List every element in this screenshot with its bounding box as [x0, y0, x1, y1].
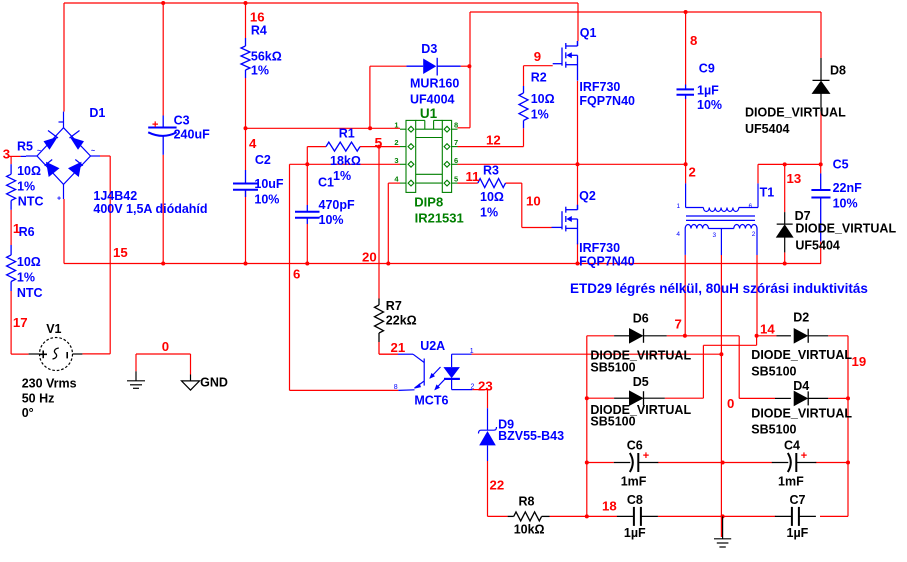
svg-text:+: + — [57, 196, 61, 203]
svg-text:D1: D1 — [89, 106, 105, 120]
wire C3 top — [162, 3, 164, 116]
wire to D9 cathode — [487, 390, 489, 409]
svg-text:3: 3 — [713, 232, 717, 239]
svg-text:4: 4 — [676, 231, 680, 238]
svg-text:1µF: 1µF — [787, 526, 809, 540]
junction rail C3 — [161, 262, 165, 266]
R5 top lead — [10, 164, 12, 174]
wire to D3 anode — [370, 65, 407, 67]
svg-text:23: 23 — [478, 379, 493, 394]
svg-text:2: 2 — [752, 231, 756, 238]
svg-text:1µF: 1µF — [624, 526, 646, 540]
junction rail pin4 — [386, 262, 390, 266]
wire C2 bottom — [245, 190, 247, 264]
wire opto pin1 to node 0 — [472, 353, 722, 355]
junction rail C2 — [244, 262, 248, 266]
svg-text:12: 12 — [486, 133, 501, 148]
R2 body — [519, 93, 528, 121]
svg-text:1%: 1% — [480, 206, 498, 220]
svg-text:FQP7N40: FQP7N40 — [579, 255, 635, 269]
svg-text:21: 21 — [391, 340, 406, 355]
svg-text:Q1: Q1 — [580, 26, 597, 40]
svg-text:R4: R4 — [251, 24, 267, 38]
junction node 13 D7 — [783, 162, 787, 166]
svg-text:19: 19 — [852, 354, 867, 369]
wire Q1 source down — [577, 81, 579, 164]
wire to C6 — [587, 462, 614, 464]
wire node 18 to C8 — [587, 515, 617, 517]
junction node 8 C9 — [684, 10, 688, 14]
wire opto pin2 — [472, 389, 487, 391]
svg-text:10%: 10% — [254, 193, 279, 207]
svg-text:MUR160: MUR160 — [410, 77, 459, 91]
junction node 2 half bridge — [576, 162, 580, 166]
junction node 19 D4 — [846, 396, 850, 400]
svg-text:SB5100: SB5100 — [751, 365, 796, 379]
diode D3 MUR160 — [406, 65, 423, 67]
junction node 7 — [683, 334, 687, 338]
op-amp driver U1 IR21531 DIP8 — [400, 120, 458, 192]
R1 body — [326, 142, 360, 151]
svg-text:10uF: 10uF — [254, 177, 284, 191]
svg-text:C5: C5 — [833, 158, 849, 172]
wire to C7 — [723, 515, 776, 517]
wire node 14 horizontal — [703, 344, 756, 346]
svg-text:V1: V1 — [46, 322, 61, 336]
svg-text:+: + — [643, 450, 649, 462]
wire rail node 8 — [470, 11, 821, 13]
wire C9 top — [685, 12, 687, 85]
wire node 5 to R7 — [378, 264, 380, 299]
wire node 4 to C2 — [245, 128, 247, 170]
svg-text:470pF: 470pF — [319, 198, 355, 212]
wire R1 right to U1 pin2 — [360, 146, 400, 148]
wire C4 to node 19 — [816, 462, 849, 464]
wire to R8 — [488, 515, 508, 517]
R3 body — [478, 179, 506, 188]
svg-text:FQP7N40: FQP7N40 — [579, 94, 635, 108]
R6 body — [7, 255, 16, 282]
svg-text:DIODE_VIRTUAL: DIODE_VIRTUAL — [751, 348, 852, 362]
diode D7 UF5404 — [784, 212, 786, 224]
AC source V1 — [29, 338, 83, 371]
svg-text:20: 20 — [362, 250, 377, 265]
svg-text:1%: 1% — [531, 108, 549, 122]
svg-text:R6: R6 — [19, 225, 35, 239]
svg-text:NTC: NTC — [17, 286, 43, 300]
capacitor C8 — [617, 507, 658, 526]
svg-text:D3: D3 — [421, 42, 437, 56]
wire pin4 to rail — [387, 183, 389, 263]
junction node 4 — [244, 126, 248, 130]
junction node 19 C4 — [846, 461, 850, 465]
svg-text:7: 7 — [454, 138, 458, 147]
wire R1 left down — [306, 147, 308, 165]
bridge rectifier D1 — [21, 112, 100, 199]
svg-text:240uF: 240uF — [174, 128, 210, 142]
wire node 15 vertical — [109, 156, 111, 354]
wire node 6 to opto emitter — [290, 389, 399, 391]
D1 diode bottom-right edge — [68, 162, 82, 177]
svg-text:C3: C3 — [174, 114, 190, 128]
svg-text:2: 2 — [394, 138, 398, 147]
diode D8 UF5404 — [820, 58, 822, 80]
junction D3 cathode — [467, 64, 471, 68]
svg-text:1: 1 — [677, 203, 681, 210]
wire C8 right — [658, 515, 723, 517]
D5 symbol — [630, 391, 644, 405]
wire D7 anode to rail — [784, 252, 786, 263]
junction rail D7 — [783, 262, 787, 266]
svg-text:3: 3 — [394, 156, 398, 165]
D7 symbol — [777, 224, 793, 237]
wire R2 top — [523, 66, 525, 86]
wire to D2 anode — [757, 335, 777, 337]
R8 right lead — [542, 515, 550, 517]
R4 body — [241, 46, 250, 70]
wire top rail node 16 — [64, 2, 578, 4]
capacitor C3 (polarized) — [148, 128, 176, 136]
svg-text:15: 15 — [113, 245, 128, 260]
svg-text:10Ω: 10Ω — [480, 190, 504, 204]
svg-text:9: 9 — [534, 49, 541, 64]
svg-text:C2: C2 — [255, 153, 271, 167]
capacitor C9 — [677, 89, 695, 94]
wire node 19 column — [847, 336, 849, 517]
wire D3 anode branch — [369, 66, 371, 128]
wire ground net 0 — [136, 353, 191, 355]
svg-text:10kΩ: 10kΩ — [514, 523, 545, 537]
transistor Q2 IRF730 — [552, 205, 578, 245]
R7 body — [375, 305, 384, 333]
svg-text:1mF: 1mF — [621, 475, 647, 489]
capacitor C6 — [614, 453, 659, 472]
R2 bottom lead — [523, 121, 525, 129]
wire D4 cathode — [828, 397, 848, 399]
D4 symbol — [794, 391, 808, 405]
svg-text:NTC: NTC — [18, 195, 44, 209]
svg-text:~: ~ — [37, 148, 41, 155]
svg-text:C8: C8 — [627, 493, 643, 507]
wire D1 bottom to rail — [63, 199, 65, 264]
wire C6 to C4 — [658, 462, 773, 464]
svg-text:1mF: 1mF — [778, 475, 804, 489]
junction node 0 ground — [721, 514, 725, 518]
svg-text:10Ω: 10Ω — [17, 255, 41, 269]
svg-text:8: 8 — [394, 384, 398, 391]
svg-text:R8: R8 — [519, 495, 535, 509]
svg-text:MCT6: MCT6 — [414, 394, 448, 408]
svg-text:SB5100: SB5100 — [751, 423, 796, 437]
svg-text:1J4B42: 1J4B42 — [93, 189, 137, 203]
svg-text:10Ω: 10Ω — [17, 164, 41, 178]
svg-text:1%: 1% — [17, 271, 35, 285]
svg-text:UF5404: UF5404 — [795, 239, 840, 253]
svg-text:Q2: Q2 — [579, 189, 596, 203]
wire ground stem left — [135, 354, 137, 371]
wire U1 pin7 node 12 — [458, 146, 524, 148]
wire node 18 left column — [586, 336, 588, 517]
transistor Q1 IRF730 — [553, 41, 578, 81]
R4 top lead — [245, 38, 247, 46]
svg-text:1µF: 1µF — [697, 83, 719, 97]
wire left vertical to D1 top — [63, 3, 65, 112]
wire node 13 — [758, 163, 821, 165]
wire node 2 to T1 primary left — [685, 164, 687, 183]
wire R4 bottom to node 4 — [245, 78, 247, 128]
R7 bottom lead — [378, 333, 380, 342]
wire C5 bottom to rail — [820, 241, 822, 263]
wire to U1 pin 8 — [458, 127, 471, 129]
svg-text:SB5100: SB5100 — [590, 415, 635, 429]
junction node 18 C6 — [585, 461, 589, 465]
svg-text:1%: 1% — [333, 169, 351, 183]
wire U1 pin6 node 2 — [458, 163, 686, 165]
capacitor C7 — [775, 507, 816, 526]
svg-text:10Ω: 10Ω — [531, 92, 555, 106]
wire U1 pin4 — [388, 182, 400, 184]
D6 symbol — [630, 329, 644, 343]
wire Q2 source to rail — [577, 243, 579, 264]
svg-text:10%: 10% — [697, 98, 722, 112]
wire node 14 to D5 cathode — [702, 345, 704, 398]
svg-text:DIODE_VIRTUAL: DIODE_VIRTUAL — [795, 222, 896, 236]
wire node 10 vertical — [521, 183, 523, 227]
svg-text:2: 2 — [689, 165, 696, 180]
wire to Q2 gate — [522, 227, 552, 229]
wire C7 right to node 19 — [820, 515, 848, 517]
zener diode D9 BZV55-B43 — [487, 408, 489, 430]
svg-text:6: 6 — [293, 267, 300, 282]
R2 top lead — [523, 86, 525, 93]
wire to opto collector — [379, 353, 398, 355]
R8 body — [514, 512, 542, 521]
svg-text:IRF730: IRF730 — [579, 241, 620, 255]
wire center tap node 0 vertical — [720, 255, 722, 537]
svg-text:4: 4 — [249, 136, 257, 151]
svg-text:BZV55-B43: BZV55-B43 — [498, 429, 564, 443]
svg-text:18kΩ: 18kΩ — [330, 154, 361, 168]
svg-text:22: 22 — [490, 478, 505, 493]
junction rail C1 — [305, 262, 309, 266]
wire R7 to opto node 21 — [378, 342, 380, 354]
svg-text:0: 0 — [162, 339, 169, 354]
wire to V1 negative terminal — [11, 353, 29, 355]
junction node 18 R8 C8 — [585, 514, 589, 518]
wire D8 cathode up — [820, 12, 822, 58]
D1 diode top-left edge — [44, 137, 58, 150]
ground symbol output — [714, 516, 731, 547]
wire C1 top — [306, 164, 308, 205]
junction rail Q2 source — [576, 262, 580, 266]
svg-text:6: 6 — [454, 156, 458, 165]
diode D4 SB5100 — [775, 397, 791, 399]
R4 bottom lead — [245, 70, 247, 78]
wire R8 to node 18 — [550, 515, 587, 517]
svg-text:GND: GND — [200, 376, 228, 390]
svg-text:5: 5 — [375, 135, 383, 151]
wire D9 anode node 22 — [487, 461, 489, 516]
wire R3 right lead — [506, 182, 522, 184]
wire D6 cathode node 7 — [667, 335, 740, 337]
svg-text:C7: C7 — [790, 493, 806, 507]
junction top rail C3 — [161, 1, 165, 5]
svg-text:R5: R5 — [17, 140, 33, 154]
svg-text:1%: 1% — [17, 180, 35, 194]
svg-text:2: 2 — [471, 384, 475, 391]
wire node 3 vertical — [10, 156, 12, 164]
svg-text:ETD29 légrés nélkül, 80uH szór: ETD29 légrés nélkül, 80uH szórási indukt… — [570, 281, 868, 296]
svg-text:R1: R1 — [339, 127, 355, 141]
svg-text:230 Vrms: 230 Vrms — [22, 377, 77, 391]
svg-text:R3: R3 — [483, 164, 499, 178]
capacitor C2 — [233, 184, 258, 190]
svg-text:D2: D2 — [793, 311, 809, 325]
ground symbol GND triangle — [182, 375, 200, 391]
svg-text:13: 13 — [787, 171, 802, 186]
wire node 4 to U1 pin1 — [246, 127, 401, 129]
junction D3 anode branch — [368, 126, 372, 130]
svg-text:1: 1 — [13, 221, 20, 236]
wire bottom rail node 20 — [64, 263, 821, 265]
svg-text:22kΩ: 22kΩ — [386, 314, 417, 328]
R5 bottom lead — [10, 201, 12, 210]
svg-text:U2A: U2A — [420, 339, 445, 353]
svg-text:5: 5 — [454, 175, 458, 184]
svg-text:IRF730: IRF730 — [579, 80, 620, 94]
svg-text:C4: C4 — [784, 439, 800, 453]
svg-text:56kΩ: 56kΩ — [251, 50, 282, 64]
D1 diode top-right edge — [70, 137, 84, 150]
wire U1 pin5 node 11 — [458, 182, 478, 184]
svg-text:10%: 10% — [833, 197, 858, 211]
junction node 13 C5 D8 — [819, 162, 823, 166]
wire node 9 to Q1 gate — [524, 65, 553, 67]
junction node 14 — [755, 334, 759, 338]
svg-text:D4: D4 — [793, 379, 809, 393]
capacitor C1 — [295, 212, 320, 218]
svg-text:C9: C9 — [699, 62, 715, 76]
svg-text:10: 10 — [526, 194, 541, 209]
wire D2 cathode to node 19 — [828, 335, 848, 337]
svg-text:IR21531: IR21531 — [415, 211, 464, 226]
svg-text:8: 8 — [454, 121, 458, 130]
ground symbol (earth) — [127, 371, 145, 388]
svg-text:UF4004: UF4004 — [410, 93, 455, 107]
wire node 7 down — [738, 336, 740, 399]
svg-text:17: 17 — [13, 315, 28, 330]
svg-text:D5: D5 — [633, 375, 649, 389]
wire node 5 vertical — [378, 147, 380, 264]
svg-text:50 Hz: 50 Hz — [22, 391, 55, 405]
D1 diode bottom-left edge — [46, 162, 60, 177]
junction top rail R4 — [244, 1, 248, 5]
wire to D5 anode — [587, 397, 614, 399]
svg-text:C1: C1 — [318, 176, 334, 190]
wire R4 top — [245, 3, 247, 38]
wire Q2 drain — [577, 164, 579, 205]
diode D2 SB5100 — [776, 335, 791, 337]
svg-text:16: 16 — [250, 10, 265, 25]
svg-text:~: ~ — [91, 148, 95, 155]
svg-text:0°: 0° — [22, 406, 34, 420]
wire C3 bottom — [162, 155, 164, 264]
wire C5 top — [820, 164, 822, 173]
wire R5 to R6 node 1 — [10, 210, 12, 245]
svg-text:R7: R7 — [386, 299, 402, 313]
diode D6 SB5100 — [614, 335, 629, 337]
R6 bottom lead — [10, 282, 12, 292]
wire R1 left lead — [307, 146, 326, 148]
wire D7 cathode up — [784, 164, 786, 212]
svg-text:1: 1 — [470, 348, 474, 355]
svg-text:DIP8: DIP8 — [414, 195, 443, 210]
R5 body — [7, 174, 16, 200]
wire node 6 to U1 pin3 — [290, 163, 401, 165]
wire node 6 vertical — [289, 164, 291, 390]
svg-text:18: 18 — [602, 499, 617, 514]
wire D5 cathode — [665, 397, 704, 399]
wire T1 primary right up — [757, 164, 759, 183]
D8 symbol — [813, 80, 830, 93]
svg-text:8: 8 — [690, 33, 697, 48]
svg-text:DIODE_VIRTUAL: DIODE_VIRTUAL — [745, 106, 846, 120]
svg-text:1: 1 — [394, 121, 398, 130]
D2 symbol — [794, 329, 808, 343]
R7 top lead — [378, 299, 380, 306]
wire ground stem right — [190, 354, 192, 375]
svg-text:D6: D6 — [633, 312, 649, 326]
capacitor C4 — [772, 453, 817, 472]
svg-text:400V 1,5A diódahíd: 400V 1,5A diódahíd — [93, 202, 207, 216]
wire R2 bottom — [523, 128, 525, 146]
R8 left lead — [508, 515, 514, 517]
junction node 18 D5 — [585, 396, 589, 400]
R6 top lead — [10, 245, 12, 255]
wire D8 anode down — [820, 111, 822, 164]
wire C1 bottom — [306, 224, 308, 264]
svg-text:D8: D8 — [830, 64, 846, 78]
svg-text:R2: R2 — [531, 71, 547, 85]
svg-text:U1: U1 — [420, 106, 438, 121]
wire secondary pin4 down node 7 — [684, 255, 686, 336]
wire D1 left to R5 — [10, 155, 21, 157]
wire secondary pin2 down node 14 — [756, 255, 758, 336]
optocoupler U2A MCT6 — [398, 354, 472, 390]
svg-text:DIODE_VIRTUAL: DIODE_VIRTUAL — [751, 407, 852, 421]
junction node 0 C6 row — [721, 461, 725, 465]
wire D3 cathode to node 8 — [461, 65, 470, 67]
wire to D6 anode — [587, 335, 614, 337]
svg-text:22nF: 22nF — [833, 181, 863, 195]
wire to D4 anode — [739, 397, 775, 399]
wire R6 to V1 node 17 — [10, 291, 12, 354]
svg-text:0: 0 — [727, 396, 734, 411]
junction node 5 — [377, 145, 381, 149]
transformer T1 — [685, 183, 758, 255]
svg-text:UF5404: UF5404 — [745, 122, 790, 136]
junction node 2 C9 T1 — [684, 162, 688, 166]
svg-text:14: 14 — [760, 322, 775, 337]
wire D1 right pin — [100, 155, 110, 157]
svg-text:+: + — [152, 119, 158, 131]
capacitor C5 — [811, 190, 830, 198]
svg-text:6: 6 — [749, 203, 753, 210]
svg-text:C6: C6 — [627, 439, 643, 453]
svg-text:T1: T1 — [760, 186, 775, 200]
svg-text:10%: 10% — [319, 213, 344, 227]
diode D5 SB5100 — [614, 397, 629, 399]
